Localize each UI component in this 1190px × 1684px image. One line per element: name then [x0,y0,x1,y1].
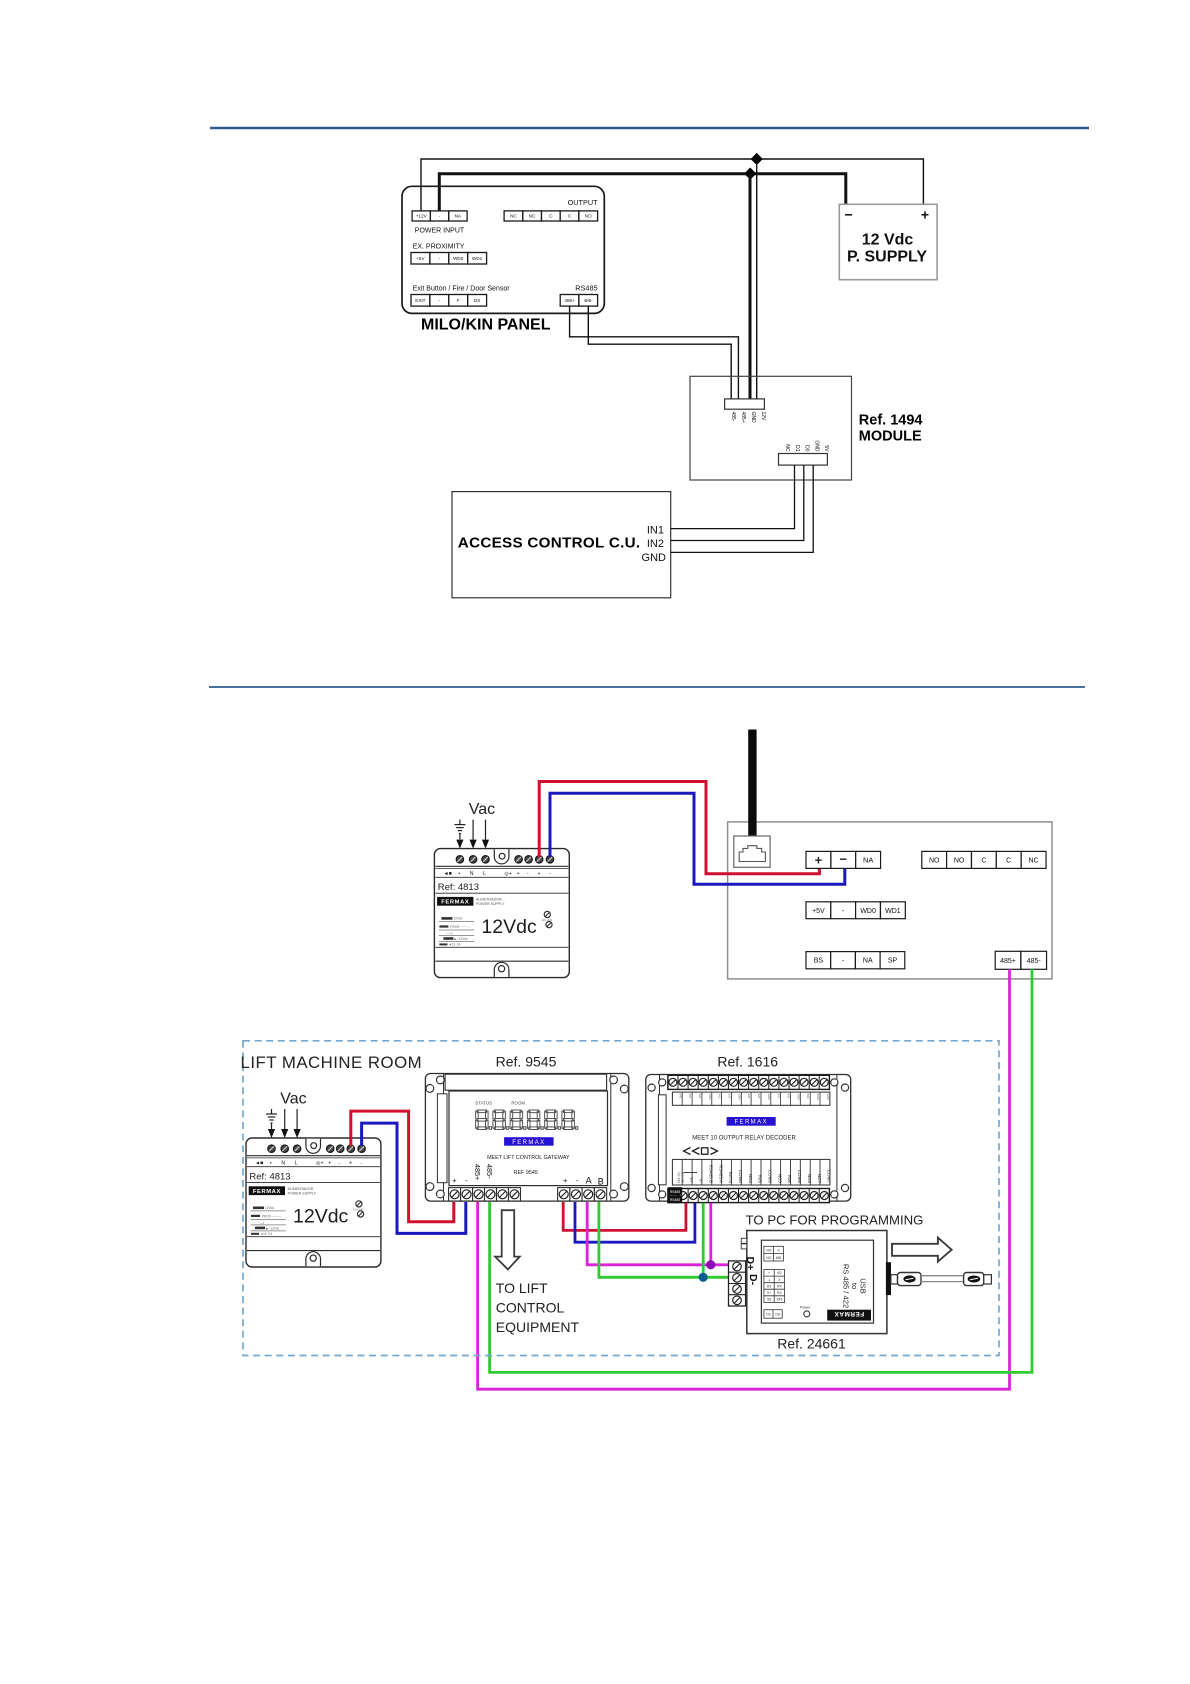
svg-text:+: + [563,1176,568,1185]
svg-text:4D: 4D [777,1271,782,1275]
svg-text:COM7: COM7 [827,1170,832,1184]
svg-text:Vac: Vac [280,1091,306,1108]
wire green gateway B to converter D- [599,1202,729,1277]
terminal strip OUTPUT (NC,NC,C,C,NO) [504,211,598,221]
decoder bottom screw band [668,1189,830,1203]
svg-text:TO LIFT: TO LIFT [496,1280,548,1296]
svg-text:ROOM: ROOM [511,1101,525,1106]
svg-text:▶−12Vdc: ▶−12Vdc [454,937,468,941]
label Ref. 24661 [777,1335,846,1351]
ground+Vac arrows PSU1 [454,801,495,849]
wire GND to module GND [671,465,814,552]
svg-text:RS485: RS485 [670,1190,680,1194]
usb cable connector left [891,1273,921,1286]
svg-text:RS485 A: RS485 A [718,1165,723,1184]
svg-text:N: N [470,871,474,877]
wire GND branch down to module (thick) [749,174,752,399]
svg-text:485-: 485- [485,1164,494,1179]
svg-text:12V: 12V [760,412,766,422]
svg-text:MODULE: MODULE [859,429,922,445]
label MEET LIFT CONTROL GATEWAY [487,1155,570,1176]
svg-text:RS485: RS485 [670,1198,680,1202]
gateway terminal block right [558,1188,607,1201]
svg-text:SC 485: SC 485 [680,1172,684,1183]
ground+Vac arrows PSU2 [266,1091,307,1139]
label Ref. 9545 [496,1054,557,1070]
svg-text:WD0: WD0 [860,908,876,915]
svg-text:IN10: IN10 [816,1094,820,1101]
svg-text:R06: R06 [787,1175,792,1184]
cable ethernet to RJ45 [748,730,756,852]
svg-text:NA: NA [455,214,462,219]
RJ45 jack [734,836,770,867]
arrow to lift control equipment [495,1210,520,1269]
door panel terminal box [728,822,1052,979]
svg-text:+: + [328,1161,331,1167]
svg-text:NA: NA [863,856,873,865]
svg-text:GND: GND [826,1094,830,1102]
svg-text:COM6: COM6 [797,1170,802,1184]
svg-text:485-: 485- [584,298,594,303]
svg-text:◎+: ◎+ [504,871,512,877]
wire blue PSU1 - to panel - [550,793,845,884]
wire blue PSU2 - to gateway - [362,1123,466,1233]
svg-text:SP: SP [888,958,898,965]
svg-text:C: C [1006,857,1011,864]
svg-text:+: + [537,871,540,877]
svg-text:MEET 10 OUTPUT RELAY DECODER: MEET 10 OUTPUT RELAY DECODER [692,1136,796,1142]
svg-text:IN7: IN7 [777,1094,781,1099]
decoder top screw band [668,1075,830,1089]
svg-text:+: + [517,871,520,877]
svg-text:-: - [527,871,529,877]
power LED [800,1306,811,1317]
svg-text:+: + [452,1176,457,1185]
svg-text:B: B [598,1177,604,1187]
svg-text:COM5: COM5 [768,1170,773,1184]
svg-text:•: • [458,871,460,877]
svg-text:V+: V+ [689,1177,694,1183]
svg-text:POWER SUPPLY: POWER SUPPLY [288,1191,317,1195]
power supply PSU2 Ref:4813 12Vdc [246,1138,381,1267]
terminal strip EX. PROXIMITY (+5V,-,WD0,WD1) [411,253,487,265]
usb cable cord [921,1276,964,1282]
svg-text:GND: GND [750,412,756,424]
svg-text:12Vdc: 12Vdc [265,1206,274,1210]
svg-text:WD1: WD1 [885,908,901,915]
junction GND node [744,168,756,180]
svg-text:12Vdc: 12Vdc [293,1206,349,1228]
svg-text:IN6: IN6 [757,1094,761,1099]
svg-text:12Vdc: 12Vdc [481,916,537,938]
svg-text:OUTPUT: OUTPUT [568,198,599,207]
wire magenta 485+ loop panel to gateway [478,969,1010,1389]
junction 12V node [751,153,763,165]
svg-text:ALIMENTADOR: ALIMENTADOR [288,1187,314,1191]
svg-text:+: + [349,1161,352,1167]
junction D- node [699,1273,708,1282]
svg-text:485-: 485- [1027,958,1042,965]
svg-text:BS: BS [814,958,824,965]
svg-text:NO: NO [929,857,940,864]
svg-text:RX: RX [777,1291,782,1295]
svg-text:Exit Button / Fire / Door Sens: Exit Button / Fire / Door Sensor [413,286,511,293]
svg-text:Ref. 1494: Ref. 1494 [859,413,923,429]
svg-text:FERMAX: FERMAX [512,1140,545,1146]
terminal strip panel (BS,-,NA,SP) [806,952,905,969]
svg-text:S+: S+ [767,1291,771,1295]
svg-text:◄12−24: ◄12−24 [260,1232,272,1236]
terminal strip panel (+,-,NA) [806,851,881,868]
decoder RS485 tag blocks [668,1187,682,1203]
wire blue gateway right - to decoder V- [575,1202,695,1242]
svg-text:RS485 B: RS485 B [709,1165,714,1183]
svg-text:-: - [338,1161,340,1167]
svg-text:◎+: ◎+ [316,1161,324,1167]
svg-text:485+: 485+ [740,412,746,423]
wire red PSU2 + to gateway + [351,1111,454,1222]
svg-text:DS: DS [767,1284,772,1288]
box ACCESS CONTROL C.U. [452,492,671,598]
gateway Ref. 9545 unit [425,1074,628,1202]
svg-text:ACCESS CONTROL C.U.: ACCESS CONTROL C.U. [458,535,641,552]
label Ref. 1616 [717,1054,778,1070]
svg-text:•: • [270,1161,272,1167]
svg-text:+5V: +5V [416,256,425,261]
svg-text:IN8: IN8 [787,1094,791,1099]
svg-text:L: L [295,1161,298,1167]
terminal strip POWER INPUT (+12V,-,NA) [412,211,467,221]
wire IN1 to module D1 [671,465,795,528]
terminal strip panel (+5V,-,WD0,WD1) [806,902,905,919]
svg-text:D+: D+ [744,1257,756,1271]
terminal strip panel (NO,NO,C,C,NC) [922,851,1046,868]
svg-text:+: + [768,1271,770,1275]
module Ref. 1494 body [690,376,852,480]
wire 485+ panel to module [570,307,739,400]
svg-text:NO: NO [766,1249,771,1253]
label TO LIFT CONTROL EQUIPMENT [496,1280,580,1335]
svg-text:485-: 485- [730,412,736,422]
decoder termination symbols [684,1148,718,1155]
svg-text:NC7: NC7 [817,1174,822,1184]
svg-text:OO: OO [775,1313,781,1317]
svg-text:NC: NC [510,214,517,219]
svg-text:WD0: WD0 [453,256,464,261]
svg-text:-: - [549,871,551,877]
converter USB port tab [886,1262,891,1295]
label MILO/KIN PANEL [421,316,551,333]
label MEET 10 OUTPUT RELAY DECODER [692,1136,796,1142]
svg-text:REF 9545: REF 9545 [514,1170,538,1176]
svg-text:IN3: IN3 [718,1094,722,1099]
label D+ D- [744,1257,759,1286]
svg-text:+12V: +12V [416,214,428,219]
panel MILO/KIN PANEL body [402,186,604,313]
svg-text:RX: RX [777,1284,782,1288]
label LIFT MACHINE ROOM [241,1053,423,1072]
svg-text:EX. PROXIMITY: EX. PROXIMITY [413,243,465,250]
svg-text:NO: NO [766,1256,771,1260]
svg-text:GND: GND [813,440,819,452]
svg-text:Ref. 9545: Ref. 9545 [496,1054,557,1070]
terminal strip panel (485+,485-) [995,951,1046,969]
wire green decoder RS485B drop [702,1203,705,1277]
svg-text:POWER INPUT: POWER INPUT [415,227,465,234]
svg-text:GN4: GN4 [737,1094,741,1101]
logo FERMAX decoder [727,1117,776,1126]
wire red PSU1 + to panel + [539,782,819,874]
decoder top label cells [672,1092,830,1105]
decoder Ref. 1616 unit [646,1075,851,1202]
svg-text:FERMAX: FERMAX [834,1310,864,1317]
svg-text:N: N [281,1161,285,1167]
converter DIP block upper [764,1246,784,1261]
svg-text:F: F [457,298,460,303]
dashed boundary LIFT MACHINE ROOM [243,1041,999,1356]
svg-text:GN8: GN8 [796,1094,800,1101]
svg-text:NC0: NC0 [748,1174,753,1184]
svg-text:−—ℓ: −—ℓ [446,932,452,936]
svg-text:R05: R05 [758,1175,763,1184]
svg-text:IN2: IN2 [698,1094,702,1099]
svg-text:-: - [360,1161,362,1167]
svg-text:A: A [586,1176,592,1186]
svg-text:12 Vdc: 12 Vdc [862,232,914,249]
wire GND/- from panel to supply - (thick) [439,174,846,211]
label OUTPUT [568,198,599,207]
svg-text:12V−24V: 12V−24V [541,918,552,922]
svg-text:C: C [981,857,986,864]
svg-text:POWER SUPPLY: POWER SUPPLY [476,902,505,906]
svg-text:485+: 485+ [564,298,575,303]
svg-text:OC: OC [766,1313,772,1317]
logo FERMAX converter (inverted) [827,1310,871,1321]
svg-text:DS: DS [474,298,480,303]
logo FERMAX gateway [504,1137,553,1146]
svg-text:-1: -1 [768,1278,771,1282]
svg-text:GN2: GN2 [708,1094,712,1101]
svg-text:MEET LIFT CONTROL GATEWAY: MEET LIFT CONTROL GATEWAY [487,1155,570,1161]
svg-text:IN1: IN1 [688,1094,692,1099]
svg-text:Ref. 1616: Ref. 1616 [717,1054,778,1070]
svg-text:L: L [483,871,486,877]
svg-text:Ref: 4813: Ref: 4813 [249,1172,290,1183]
svg-text:X45: X45 [776,1298,782,1302]
svg-text:IN9: IN9 [806,1094,810,1099]
wire 12V branch down to module [756,159,758,399]
svg-text:EXIT: EXIT [415,298,425,303]
svg-text:NO: NO [954,857,965,864]
svg-text:S5: S5 [767,1298,771,1302]
junction D+ node [706,1260,715,1269]
svg-text:−: − [839,852,847,867]
wire green 485- loop panel to gateway [490,969,1032,1372]
svg-text:V-: V- [699,1179,704,1184]
label EX. PROXIMITY [413,243,465,250]
divider rule top [210,127,1089,130]
svg-text:▶−12Vdc: ▶−12Vdc [266,1226,280,1230]
gateway terminal block left [449,1188,521,1201]
divider rule middle [209,686,1085,688]
svg-text:D1: D1 [794,445,800,452]
svg-text:FERMAX: FERMAX [253,1189,281,1195]
svg-text:NC 485: NC 485 [677,1172,681,1183]
svg-text:485: 485 [776,1256,782,1260]
svg-text:12V−24V: 12V−24V [353,1208,364,1212]
power supply 12 Vdc P. SUPPLY box [839,204,937,279]
svg-text:MILO/KIN PANEL: MILO/KIN PANEL [421,316,551,333]
connector J2 (NC,D1,D0,GND,5V) [779,440,830,465]
svg-text:NO: NO [585,214,592,219]
converter Ref. 24661 box [741,1231,887,1334]
svg-text:12Vdc: 12Vdc [453,917,462,921]
wire +12V from panel to supply + [421,159,923,211]
svg-text:−: − [845,207,853,223]
connector J1 (485-,485+,GND,12V) [725,399,766,423]
svg-text:NC6: NC6 [807,1174,812,1184]
svg-text:NC: NC [529,214,536,219]
terminal strip RS485 (485+,485-) [560,295,597,307]
terminal strip Exit (EXIT,-,F,DS) [411,295,487,307]
svg-text:485+: 485+ [473,1164,482,1180]
svg-text:P. SUPPLY: P. SUPPLY [847,249,927,266]
usb cable connector right [964,1273,992,1286]
gateway terminal labels [452,1164,604,1187]
svg-text:NA: NA [863,958,873,965]
label Ref. 1494 MODULE [859,413,923,445]
svg-text:GND: GND [642,552,667,564]
svg-text:IN2: IN2 [647,538,664,550]
wire magenta gateway A to converter D+ [587,1202,728,1265]
svg-text:NC: NC [1029,857,1039,864]
display 7-segment digits [476,1110,578,1130]
svg-text:LIFT MACHINE ROOM: LIFT MACHINE ROOM [241,1053,423,1072]
svg-text:D-: D- [747,1274,759,1286]
svg-text:WD1: WD1 [472,256,483,261]
svg-text:RAT0: RAT0 [728,1172,733,1184]
svg-text:+: + [815,853,823,868]
label Exit Button / Fire / Door Sensor [413,286,511,293]
svg-text:◄■: ◄■ [443,871,451,877]
svg-text:NC5: NC5 [777,1174,782,1184]
label POWER INPUT [415,227,465,234]
svg-text:+5V: +5V [812,908,825,915]
wire magenta decoder RS485A drop [709,1203,712,1265]
svg-text:EQUIPMENT: EQUIPMENT [496,1319,580,1335]
label USB to RS485/422 [841,1264,867,1308]
svg-text:PROX·−·−−→: PROX·−·−−→ [450,925,470,929]
svg-text:COM0: COM0 [738,1170,743,1184]
svg-text:GN6: GN6 [767,1094,771,1101]
svg-text:RS485: RS485 [575,283,597,292]
svg-text:+: + [921,207,929,223]
power supply PSU1 Ref:4813 12Vdc [434,849,569,978]
svg-text:Power: Power [800,1306,811,1310]
svg-text:FERMAX: FERMAX [441,900,469,906]
converter DIP block lower [764,1270,785,1303]
label RS485 [575,283,597,292]
converter D terminal block [729,1261,746,1306]
svg-text:−—ℓ: −—ℓ [258,1221,264,1225]
svg-text:PROX·−·−−→: PROX·−·−−→ [262,1214,282,1218]
svg-text:IN0: IN0 [678,1094,682,1099]
wire red gateway right + to decoder V+ [563,1202,686,1230]
svg-text:5V: 5V [823,445,829,452]
svg-text:Ref: 4813: Ref: 4813 [438,882,479,893]
wire IN2 to module D0 [671,465,804,540]
svg-text:◄12−24: ◄12−24 [448,943,460,947]
svg-text:IN1: IN1 [647,525,664,537]
svg-text:D0: D0 [804,445,810,452]
svg-text:◄■: ◄■ [255,1161,263,1167]
converter jumper block bottom [764,1310,782,1319]
label TO PC FOR PROGRAMMING [746,1213,924,1228]
svg-text:FERMAX: FERMAX [734,1120,767,1126]
svg-text:IN5: IN5 [747,1094,751,1099]
svg-text:ALIMENTADOR: ALIMENTADOR [476,898,502,902]
svg-text:RS 485 / 422: RS 485 / 422 [841,1264,850,1308]
arrow to PC [892,1238,952,1262]
svg-text:IN4: IN4 [728,1094,732,1099]
svg-text:485+: 485+ [1000,958,1016,965]
svg-text:Vac: Vac [469,801,495,818]
svg-text:CONTROL: CONTROL [496,1299,565,1315]
wire 485- panel to module [588,307,731,400]
svg-text:STATUS: STATUS [475,1101,492,1106]
decoder bottom label cells [672,1159,831,1185]
svg-text:Ref. 24661: Ref. 24661 [777,1335,846,1351]
svg-text:NC: NC [784,444,790,452]
svg-text:TO PC FOR PROGRAMMING: TO PC FOR PROGRAMMING [746,1213,924,1228]
